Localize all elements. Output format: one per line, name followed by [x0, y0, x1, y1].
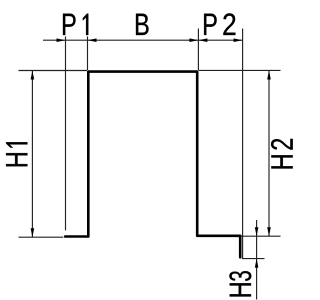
H2 top extension line: [199, 69, 281, 71]
arrow H2 top (points up): [267, 71, 271, 80]
label H1: [6, 142, 27, 166]
arrow H3 top (outside, points down): [255, 227, 259, 236]
label P1: [63, 14, 88, 35]
H3 dimension line: [256, 220, 258, 300]
H1 bottom extension line: [19, 236, 64, 238]
arrow P2 right (points right): [234, 38, 243, 42]
arrow H1 top (points up): [31, 71, 35, 80]
extension line B left: [87, 37, 89, 71]
arrow P2 left (points left): [198, 38, 207, 42]
H2 dimension line: [268, 71, 270, 237]
H3 bottom extension line: [242, 258, 265, 260]
extension line P2 right: [242, 29, 244, 259]
profile outline (hat channel section): [65, 72, 240, 258]
label H3: [229, 271, 251, 296]
H1 dimension line: [31, 71, 33, 238]
H1 top extension line: [19, 70, 88, 72]
label B: [136, 14, 149, 35]
arrow H2 bottom (points down): [267, 227, 271, 236]
label P2: [204, 13, 235, 35]
arrow B right (points right): [189, 38, 198, 42]
H2/H3 shared extension line: [242, 235, 281, 237]
extension line B right / P2 left: [197, 29, 199, 71]
arrow H1 bottom (points down): [31, 228, 35, 237]
arrow H3 bottom (outside, points up): [255, 259, 259, 268]
arrow P1 right / B left (points left): [88, 38, 97, 42]
extension line P1 left: [65, 37, 67, 231]
top dimension line: [43, 39, 243, 41]
label H2: [271, 139, 293, 169]
arrow P1 left (outside, points right): [57, 38, 66, 42]
